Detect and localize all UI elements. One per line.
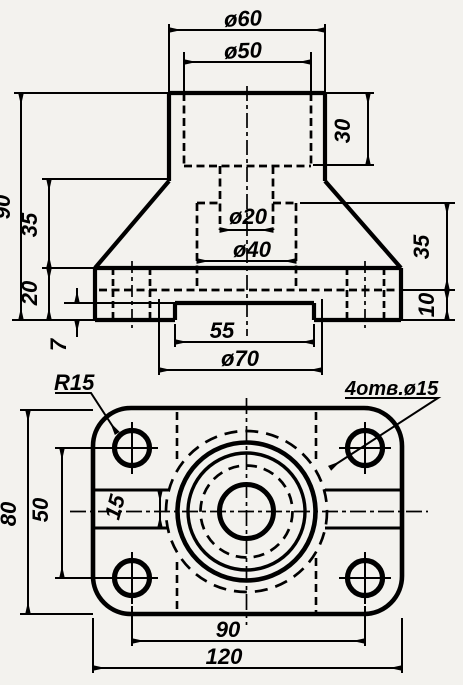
extension line: notch floor prolonged left for dim 7 — [64, 302, 175, 304]
svg-text:35: 35 — [409, 234, 434, 259]
svg-text:4отв.ø15: 4отв.ø15 — [344, 378, 439, 400]
plan view: boss ø60 circle — [178, 443, 316, 581]
svg-text:7: 7 — [46, 337, 71, 351]
centerline: plan horizontal axis — [70, 511, 428, 513]
front view: conical flare right web — [325, 181, 401, 268]
svg-text:ø50: ø50 — [224, 37, 264, 63]
extension line: slot floor prolonged right — [401, 289, 455, 291]
hidden lines: notch walls in plan — [177, 412, 316, 612]
dimension 120 plan — [93, 667, 402, 669]
extension line: shoulder at 35 top — [42, 178, 169, 180]
extension lines: dim 55 — [175, 324, 314, 347]
dimension 35 right — [446, 203, 448, 290]
dimension 90 left — [20, 93, 22, 320]
dimension ø20 line — [197, 230, 296, 261]
svg-text:ø70: ø70 — [221, 346, 260, 371]
extension line: ø40 shoulder prolonged right for dim 35 — [300, 202, 455, 204]
dimension 10 right — [446, 290, 448, 320]
svg-text:R15: R15 — [54, 370, 95, 395]
dimension ø70 — [159, 369, 322, 371]
extension lines: dim 90 plan — [132, 606, 365, 646]
plan view: hidden recess ø70 circle — [166, 431, 327, 592]
extension lines: ø60 dimension — [169, 24, 325, 93]
extension lines: top edge prolonged left and right — [14, 92, 374, 94]
dimension 20 left — [48, 268, 50, 320]
hidden line: counterbore ø40 walls — [197, 203, 296, 290]
plan view: central hole ø20 — [220, 485, 274, 539]
extension lines: dim 120 plan — [93, 618, 402, 673]
svg-text:80: 80 — [0, 501, 21, 526]
extension line: base bottom prolonged left — [12, 319, 95, 321]
centerline: front view main axis — [246, 86, 248, 336]
svg-text:90: 90 — [216, 617, 241, 642]
hidden line: ø40 shoulder annulus — [197, 202, 296, 205]
leader 4 holes ø15 — [330, 398, 438, 468]
extension line: bore bottom prolonged right for dim 30 — [313, 164, 374, 166]
front view: conical flare left web — [95, 181, 169, 268]
hidden line: right bolt hole in base — [347, 268, 384, 320]
plan view: base plate rounded rectangle 120x80 — [93, 408, 402, 614]
plan view: bolt hole top-right ø15 — [348, 431, 383, 466]
hidden line: left bolt hole in base — [113, 268, 150, 320]
dimension 90 plan — [132, 640, 365, 642]
centerline: left bolt hole axis — [131, 261, 133, 328]
dimension 7 — [76, 288, 78, 303]
plan view: bolt hole bottom-left ø15 — [115, 561, 150, 596]
centerlines: bolt hole crosshairs — [106, 422, 391, 604]
plan view: bolt hole bottom-right ø15 — [348, 561, 383, 596]
leader R15 — [55, 393, 117, 433]
hidden line: bore ø50 bottom — [184, 165, 311, 168]
dimension ø60 line — [169, 29, 325, 31]
svg-text:50: 50 — [28, 497, 53, 522]
svg-text:10: 10 — [414, 292, 439, 317]
plan view: bolt hole top-left ø15 — [115, 431, 150, 466]
dimension 35 left — [48, 179, 50, 268]
dimension ø50 line — [184, 61, 311, 63]
svg-text:30: 30 — [330, 118, 355, 143]
svg-text:ø20: ø20 — [229, 204, 268, 229]
plan view: hidden counterbore ø40 circle — [201, 466, 293, 558]
centerline: right bolt hole axis — [364, 261, 366, 328]
hidden line: hole ø20 walls — [220, 166, 273, 230]
svg-text:90: 90 — [0, 194, 15, 219]
plan view: rib slot edge lines 15 apart — [95, 490, 401, 528]
hidden line: top slot floor full width — [99, 289, 399, 292]
svg-text:20: 20 — [17, 280, 42, 306]
extension lines: dim 80 plan — [20, 410, 93, 614]
svg-text:55: 55 — [210, 318, 235, 343]
extension lines: ø50 dimension — [184, 52, 311, 93]
extension lines: dim 50 plan — [55, 448, 108, 578]
front view: outer cylinder outline ø60 — [169, 93, 325, 181]
dimension 30 right — [367, 93, 369, 165]
extension lines: dim ø70 — [159, 299, 322, 375]
dimension ø40 line — [197, 260, 296, 262]
front view: base flange outline with bottom notch 55 wide — [95, 268, 401, 320]
hidden line: bore ø50 right wall — [310, 93, 313, 166]
dimension 15 plan — [159, 490, 161, 528]
extension line: base top prolonged left — [42, 267, 95, 269]
svg-text:35: 35 — [17, 212, 42, 237]
svg-text:ø60: ø60 — [224, 5, 264, 31]
dimension 50 plan — [61, 448, 63, 578]
svg-text:ø40: ø40 — [233, 237, 272, 262]
plan view: bore ø50 circle — [188, 453, 305, 570]
dimension 55 — [175, 341, 314, 343]
svg-text:120: 120 — [206, 644, 243, 669]
hidden line: bore ø50 left wall — [183, 93, 186, 166]
centerline: plan vertical axis — [246, 398, 248, 625]
extension line: base bottom prolonged right — [401, 319, 455, 321]
dimension 80 plan — [27, 410, 29, 614]
